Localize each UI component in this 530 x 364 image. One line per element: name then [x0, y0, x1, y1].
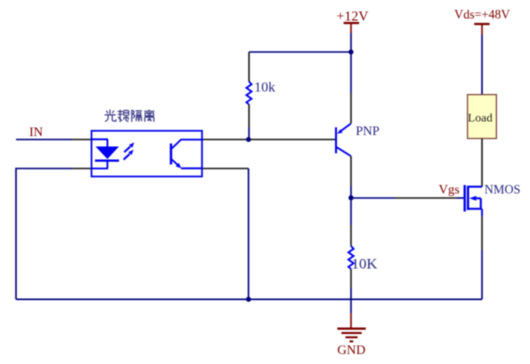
- LED inside optocoupler: [92, 139, 120, 168]
- load component box: [468, 95, 497, 139]
- svg-text:Load: Load: [468, 111, 493, 125]
- svg-text:GND: GND: [337, 342, 365, 357]
- glyph 离: [144, 110, 154, 122]
- wire R2 top lead: [350, 198, 352, 246]
- junction dot top rail: [349, 50, 354, 55]
- junction dot bottom rail: [246, 297, 251, 302]
- wire Vds to Load: [481, 35, 483, 95]
- power +12V symbol: [344, 23, 360, 33]
- svg-text:IN: IN: [29, 124, 43, 139]
- wire Load to NMOS drain: [481, 139, 483, 187]
- glyph 耦: [118, 110, 129, 122]
- wire IN horizontal: [16, 139, 92, 141]
- ground symbol: [337, 329, 366, 342]
- optocoupler U1 box: [92, 131, 203, 177]
- wire PNP collector lead: [350, 156, 352, 198]
- junction dot mid node: [349, 195, 354, 200]
- resistor R2 10K zigzag: [348, 246, 353, 269]
- wire R1 bottom lead: [248, 105, 250, 140]
- wire opto emitter down to bottom rail: [202, 169, 249, 300]
- resistor R1 10k zigzag: [246, 82, 251, 105]
- glyph 光: [105, 110, 116, 122]
- wire R1 top lead: [248, 52, 250, 82]
- svg-text:10k: 10k: [254, 81, 275, 96]
- power Vds=+48V symbol: [474, 24, 489, 35]
- wire R2 bottom lead to ground: [350, 269, 352, 328]
- svg-text:Vgs: Vgs: [439, 181, 460, 196]
- wire LED cathode to left loop: [16, 169, 92, 300]
- label 光耦隔离 (drawn glyphs): [105, 110, 155, 122]
- svg-text:10K: 10K: [352, 257, 378, 273]
- wire NMOS source down to bottom rail: [481, 209, 483, 299]
- transistor Q1 PNP symbol: [336, 124, 351, 156]
- junction dot collector node: [246, 137, 251, 142]
- wire mid rail to NMOS gate: [351, 197, 465, 199]
- svg-text:+12V: +12V: [337, 9, 369, 24]
- transistor Q2 NMOS symbol: [465, 185, 482, 212]
- light emission arrows: [124, 142, 135, 159]
- svg-text:Vds=+48V: Vds=+48V: [454, 8, 510, 22]
- svg-text:PNP: PNP: [356, 123, 380, 138]
- svg-text:NMOS: NMOS: [484, 182, 520, 196]
- glyph 隔: [132, 110, 142, 122]
- wire +12V to junction and PNP emitter: [350, 33, 352, 124]
- wire bottom rail: [16, 298, 482, 300]
- wire opto collector to PNP base: [202, 139, 336, 141]
- wire top rail: [249, 51, 351, 53]
- phototransistor inside optocoupler: [171, 140, 202, 169]
